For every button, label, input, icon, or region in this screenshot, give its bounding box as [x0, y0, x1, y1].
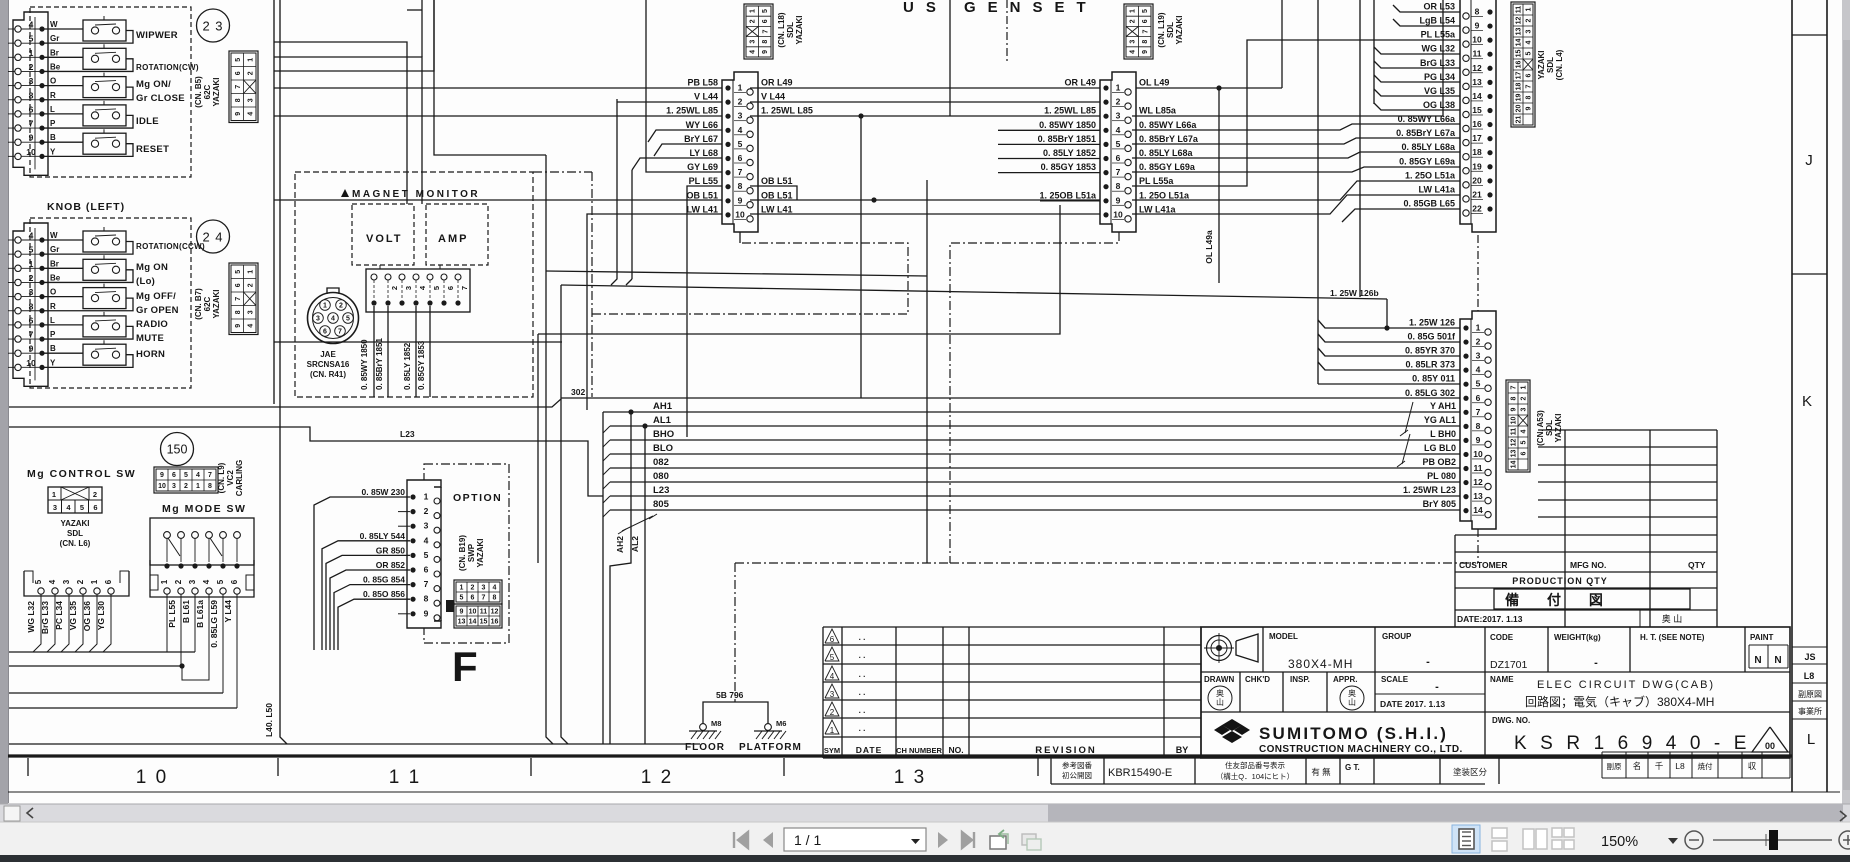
svg-text:OPTION: OPTION — [453, 492, 502, 504]
svg-text:3: 3 — [1526, 29, 1533, 33]
svg-text:8: 8 — [424, 594, 429, 604]
svg-text:2: 2 — [184, 483, 188, 490]
svg-text:(CN. L19): (CN. L19) — [1157, 12, 1166, 47]
svg-text:1: 1 — [29, 48, 34, 58]
svg-text:5: 5 — [432, 286, 441, 290]
ground FLOOR M8 — [700, 724, 707, 731]
svg-text:18: 18 — [1516, 83, 1523, 91]
svg-text:9: 9 — [1475, 21, 1480, 31]
svg-text:W: W — [50, 20, 58, 29]
svg-text:WG L32: WG L32 — [1421, 44, 1455, 54]
svg-text:8: 8 — [1142, 40, 1149, 44]
svg-text:OL L49a: OL L49a — [1204, 230, 1214, 264]
svg-text:Y L44: Y L44 — [223, 600, 233, 623]
svg-text:4: 4 — [29, 20, 34, 30]
svg-text:Br: Br — [50, 259, 59, 268]
wires WG L32 group fed from top vertical — [1373, 0, 1375, 104]
right vertical scrollbar thumb — [1843, 40, 1850, 790]
svg-text:4: 4 — [247, 324, 254, 328]
svg-text:MODEL: MODEL — [1269, 632, 1298, 641]
wire A53 pin2 — [1318, 334, 1460, 342]
svg-text:5: 5 — [34, 579, 43, 584]
wire PL L55 — [687, 186, 722, 437]
svg-text:0. 85G 501f: 0. 85G 501f — [1407, 332, 1456, 342]
svg-text:2: 2 — [93, 490, 97, 499]
svg-text:1: 1 — [247, 270, 254, 274]
nav last icon — [962, 832, 974, 848]
option short stubs pins 2,3,9 — [398, 511, 410, 513]
svg-text:. .: . . — [859, 670, 866, 679]
svg-text:R: R — [50, 91, 56, 100]
svg-text:0. 85G 854: 0. 85G 854 — [363, 575, 405, 585]
svg-text:5: 5 — [1476, 379, 1481, 389]
svg-text:VG L35: VG L35 — [1424, 86, 1455, 96]
svg-text:6: 6 — [830, 635, 835, 644]
svg-text:奥: 奥 — [1348, 688, 1356, 698]
svg-text:9: 9 — [160, 472, 164, 479]
svg-text:22: 22 — [1472, 203, 1482, 213]
CN B19 pin 3 — [410, 524, 415, 529]
svg-text:JAE: JAE — [320, 350, 336, 359]
svg-text:7: 7 — [460, 286, 469, 290]
CN R41 pin 4 — [413, 274, 419, 280]
svg-text:0. 85WY 1850: 0. 85WY 1850 — [1039, 120, 1096, 130]
svg-text:8: 8 — [235, 98, 242, 102]
svg-text:Mg ON/: Mg ON/ — [136, 79, 171, 90]
ground PLATFORM M6 — [765, 724, 772, 731]
svg-text:1: 1 — [1521, 385, 1528, 389]
svg-text:H. T. (SEE NOTE): H. T. (SEE NOTE) — [1640, 633, 1705, 642]
svg-text:4: 4 — [29, 231, 34, 241]
svg-text:11: 11 — [1511, 428, 1518, 436]
svg-text:20: 20 — [1516, 105, 1523, 113]
layout button 2 — [1492, 828, 1507, 838]
wire 080 — [610, 481, 1460, 483]
code/weight/ht/paint — [1547, 627, 1549, 672]
svg-text:. .: . . — [859, 651, 866, 660]
pin 1 — [15, 265, 21, 271]
svg-text:1 3: 1 3 — [894, 767, 926, 788]
svg-text:6: 6 — [424, 565, 429, 575]
pin 7 — [15, 336, 21, 342]
svg-text:13: 13 — [1516, 28, 1523, 36]
OPTION dashed box — [424, 464, 509, 643]
wire V L44 branch — [611, 99, 617, 285]
svg-text:CARLING: CARLING — [235, 460, 244, 496]
svg-text:1: 1 — [196, 483, 200, 490]
dash link CN L4 to CN A53 — [1477, 235, 1479, 311]
svg-text:3: 3 — [404, 286, 413, 290]
wire AL1 — [610, 425, 1460, 427]
wire drop x69 — [61, 594, 69, 652]
svg-text:AH1: AH1 — [653, 401, 673, 412]
bottom strip boxes — [1050, 758, 1052, 784]
svg-text:J: J — [1805, 152, 1813, 169]
mode pin 6 — [234, 563, 239, 568]
connector knob CN B7 body — [13, 223, 48, 386]
svg-text:9: 9 — [1142, 50, 1149, 54]
svg-text:8: 8 — [493, 595, 497, 602]
wire 0.85LY 1852 — [415, 306, 417, 397]
svg-text:1. 25WR L23: 1. 25WR L23 — [1403, 485, 1456, 495]
svg-text:CH NUMBER: CH NUMBER — [896, 746, 942, 755]
wire AH1 — [603, 411, 1460, 413]
svg-text:YAZAKI: YAZAKI — [212, 77, 221, 106]
svg-text:4: 4 — [493, 585, 497, 592]
svg-text:0. 85LY 1852: 0. 85LY 1852 — [403, 342, 412, 390]
svg-text:2 3: 2 3 — [202, 19, 223, 34]
svg-text:9: 9 — [460, 609, 464, 616]
svg-text:YAZAKI: YAZAKI — [1175, 15, 1184, 44]
connector CN B5 pin grid — [229, 51, 258, 123]
svg-text:山: 山 — [1348, 697, 1356, 707]
layout button 4 — [1552, 828, 1562, 837]
pin 5 — [15, 40, 21, 46]
svg-text:WL L85a: WL L85a — [1139, 106, 1177, 116]
svg-text:14: 14 — [1473, 505, 1483, 515]
page left edge line — [8, 0, 10, 803]
svg-text:L23: L23 — [400, 429, 415, 439]
balloon 23 — [197, 9, 230, 42]
svg-text:16: 16 — [491, 619, 499, 626]
svg-text:YAZAKI: YAZAKI — [476, 538, 485, 567]
svg-text:6: 6 — [235, 283, 242, 287]
svg-text:KBR15490-E: KBR15490-E — [1108, 767, 1172, 779]
svg-text:10: 10 — [735, 209, 745, 219]
wire option pin 1 — [314, 497, 410, 650]
svg-text:7: 7 — [235, 85, 242, 89]
svg-text:-: - — [1594, 657, 1598, 669]
svg-text:12: 12 — [1473, 477, 1483, 487]
svg-text:1: 1 — [738, 83, 743, 93]
svg-text:CUSTOMER: CUSTOMER — [1459, 560, 1508, 570]
svg-text:B L61: B L61 — [181, 600, 191, 623]
svg-text:O: O — [50, 288, 56, 297]
svg-text:PG L34: PG L34 — [1424, 72, 1455, 82]
svg-text:B: B — [50, 133, 56, 142]
svg-text:13: 13 — [1511, 450, 1518, 458]
JAE SRCNSA16 circular connector — [308, 293, 359, 344]
toolbar — [0, 822, 1850, 855]
svg-text:DATE:2017. 1.13: DATE:2017. 1.13 — [1457, 614, 1523, 624]
window icon 2 — [1022, 834, 1036, 845]
svg-text:千: 千 — [1655, 761, 1664, 771]
wire option pin 7 — [334, 585, 410, 650]
svg-text:62C: 62C — [203, 84, 212, 99]
svg-text:O: O — [50, 77, 56, 86]
svg-text:4: 4 — [1526, 40, 1533, 44]
svg-text:HORN: HORN — [136, 349, 165, 360]
wire 302 — [9, 285, 561, 407]
wire 1.25O L51a — [1132, 181, 1460, 200]
svg-text:NAME: NAME — [1490, 675, 1514, 684]
svg-text:9: 9 — [235, 112, 242, 116]
svg-text:6: 6 — [1521, 451, 1528, 455]
svg-text:5: 5 — [1526, 51, 1533, 55]
svg-text:L8: L8 — [1804, 671, 1815, 681]
svg-text:JS: JS — [1804, 652, 1815, 662]
svg-text:-: - — [1426, 656, 1430, 668]
svg-text:1: 1 — [160, 579, 169, 584]
wire OL L49a — [1218, 88, 1220, 283]
svg-text:1: 1 — [1130, 9, 1137, 13]
svg-text:5: 5 — [762, 9, 769, 13]
revision triangle 4 — [825, 666, 839, 680]
svg-text:YG AL1: YG AL1 — [1424, 415, 1456, 425]
vertical x546 — [434, 0, 546, 155]
svg-text:SYM: SYM — [824, 746, 840, 755]
connector knob CN B5 body — [13, 12, 48, 175]
CN R41 pin 6 — [441, 274, 447, 280]
svg-text:4: 4 — [196, 472, 200, 479]
wire 082 — [610, 467, 1460, 469]
wire option pin 6 — [330, 570, 410, 650]
switch HORN — [42, 352, 83, 354]
CN B19 pin 7 — [410, 582, 415, 587]
svg-text:2: 2 — [1116, 97, 1121, 107]
wire drop x97 — [89, 594, 97, 652]
mode pin 2 — [178, 563, 183, 568]
KNOB (LEFT) dashed enclosure — [30, 218, 191, 388]
svg-text:1: 1 — [323, 303, 327, 310]
svg-text:OR L49: OR L49 — [1064, 78, 1096, 88]
svg-text:SDL: SDL — [786, 22, 795, 38]
wire L23 — [610, 495, 1460, 497]
svg-text:17: 17 — [1516, 72, 1523, 80]
svg-text:1: 1 — [424, 492, 429, 502]
svg-text:(CN. L9): (CN. L9) — [217, 462, 226, 493]
approval triangle — [1752, 727, 1788, 752]
svg-text:3: 3 — [247, 310, 254, 314]
svg-text:4: 4 — [750, 50, 757, 54]
svg-text:LW L41: LW L41 — [761, 204, 793, 214]
svg-text:YAZAKI: YAZAKI — [1554, 413, 1563, 442]
svg-text:10: 10 — [1511, 417, 1518, 425]
mode pin 3 — [192, 563, 197, 568]
svg-text:住友部品番号表示: 住友部品番号表示 — [1225, 760, 1285, 770]
svg-text:K: K — [1802, 393, 1812, 410]
svg-text:OR L53: OR L53 — [1423, 2, 1455, 12]
svg-text:奥: 奥 — [1216, 688, 1224, 698]
svg-text:副原図: 副原図 — [1798, 690, 1822, 699]
wire OB L51 right — [750, 186, 797, 200]
svg-text:1: 1 — [29, 259, 34, 269]
svg-text:6: 6 — [323, 329, 327, 336]
svg-text:L BH0: L BH0 — [1430, 429, 1456, 439]
svg-text:2: 2 — [830, 708, 835, 717]
wire A53 pin3 — [1318, 348, 1460, 356]
svg-text:CHK'D: CHK'D — [1245, 675, 1270, 684]
svg-text:8: 8 — [29, 301, 34, 311]
svg-text:6: 6 — [1476, 393, 1481, 403]
bus wire y708 — [9, 707, 237, 709]
CN B19 pin 2 — [410, 509, 415, 514]
svg-text:7: 7 — [1476, 407, 1481, 417]
svg-text:8: 8 — [208, 483, 212, 490]
feed vertical for CN A53 pins — [1317, 0, 1319, 384]
svg-text:CONSTRUCTION MACHINERY CO., LT: CONSTRUCTION MACHINERY CO., LTD. — [1259, 744, 1463, 755]
svg-text:(CN. B5): (CN. B5) — [194, 76, 203, 108]
bus wire y693 — [9, 692, 223, 694]
svg-text:6: 6 — [104, 579, 113, 584]
svg-text:0. 85BrY L67a: 0. 85BrY L67a — [1396, 128, 1456, 138]
svg-text:3: 3 — [1476, 351, 1481, 361]
svg-text:L: L — [1807, 731, 1815, 748]
svg-text:2: 2 — [29, 273, 34, 283]
svg-text:6: 6 — [1526, 73, 1533, 77]
svg-text:7: 7 — [235, 297, 242, 301]
svg-text:3: 3 — [1116, 111, 1121, 121]
wire branch x861 — [860, 116, 862, 398]
revision triangle 3 — [825, 684, 839, 698]
svg-text:DWG. NO.: DWG. NO. — [1492, 716, 1530, 725]
svg-text:BrG L33: BrG L33 — [1420, 58, 1455, 68]
wire drop x41 — [33, 594, 41, 652]
svg-text:YAZAKI: YAZAKI — [60, 519, 89, 528]
mode sw pole 5 — [220, 532, 227, 539]
MAGNET MONITOR dashed box — [295, 172, 533, 397]
svg-text:0. 85LY 544: 0. 85LY 544 — [360, 531, 406, 541]
svg-text:ELEC CIRCUIT DWG(CAB): ELEC CIRCUIT DWG(CAB) — [1537, 679, 1715, 691]
svg-text:1: 1 — [1116, 83, 1121, 93]
svg-text:SWP: SWP — [467, 543, 476, 562]
svg-text:6: 6 — [29, 315, 34, 325]
svg-text:1 2: 1 2 — [641, 767, 673, 788]
svg-text:6: 6 — [29, 104, 34, 114]
svg-text:NO.: NO. — [948, 745, 963, 755]
svg-text:SCALE: SCALE — [1381, 675, 1409, 684]
svg-text:12: 12 — [1511, 439, 1518, 447]
svg-text:OB L51: OB L51 — [686, 190, 718, 200]
switch ROTATION(CW) — [42, 56, 83, 58]
svg-text:7: 7 — [424, 579, 429, 589]
svg-text:YAZAKI: YAZAKI — [1537, 50, 1546, 79]
svg-text:(CN. L4): (CN. L4) — [1555, 49, 1564, 80]
svg-text:BHO: BHO — [653, 429, 674, 440]
svg-text:WY L66: WY L66 — [686, 120, 718, 130]
svg-text:3: 3 — [316, 316, 320, 323]
wire LW L41a — [1132, 195, 1460, 214]
svg-text:CODE: CODE — [1490, 633, 1514, 642]
switch MgOFF — [42, 296, 83, 298]
wires 0.85WY L66a group to CN L4 — [1132, 124, 1460, 130]
wire A53 pin4 — [1318, 362, 1460, 370]
svg-text:RESET: RESET — [136, 144, 169, 155]
CN R41 pin 7 — [455, 274, 461, 280]
CN L18 pin grid — [744, 4, 773, 59]
svg-text:1 / 1: 1 / 1 — [794, 832, 821, 848]
svg-text:LW L41: LW L41 — [686, 204, 718, 214]
wire PL L55a up — [1132, 40, 1460, 186]
svg-text:16: 16 — [1472, 119, 1482, 129]
svg-text:0. 85GB L65: 0. 85GB L65 — [1403, 198, 1455, 208]
svg-text:PL L55: PL L55 — [167, 600, 177, 628]
wire A53 pin5 0.85Y 011 — [1318, 383, 1460, 385]
wire LW L41 right — [750, 213, 1100, 215]
svg-text:GROUP: GROUP — [1382, 632, 1412, 641]
svg-text:Br: Br — [50, 48, 59, 57]
svg-text:3: 3 — [424, 521, 429, 531]
svg-text:INSP.: INSP. — [1290, 675, 1310, 684]
svg-text:BrY L67: BrY L67 — [684, 134, 718, 144]
svg-text:2: 2 — [76, 579, 85, 584]
svg-text:US GENSET: US GENSET — [903, 0, 1098, 16]
label MAGNET MONITOR — [341, 189, 349, 197]
svg-text:14: 14 — [1511, 461, 1518, 469]
svg-text:ROTATION(CW): ROTATION(CW) — [136, 63, 199, 72]
balloon 150 — [161, 433, 194, 466]
svg-text:2 4: 2 4 — [202, 230, 223, 245]
zoom plus — [1839, 831, 1850, 849]
mode sw pole 2 — [178, 532, 185, 539]
svg-text:0. 85BrY 1851: 0. 85BrY 1851 — [375, 338, 384, 390]
svg-text:OB L51: OB L51 — [761, 176, 793, 186]
svg-text:2: 2 — [471, 585, 475, 592]
svg-text:LG BL0: LG BL0 — [1424, 443, 1456, 453]
svg-text:. .: . . — [859, 724, 866, 733]
KNOB (RIGHT) dashed enclosure — [30, 7, 191, 177]
svg-text:PL L55: PL L55 — [689, 176, 718, 186]
junction AH2 — [628, 409, 633, 414]
svg-text:SUMITOMO (S.H.I.): SUMITOMO (S.H.I.) — [1259, 724, 1448, 743]
svg-text:4: 4 — [331, 316, 335, 323]
mode sw pole 3 — [192, 532, 199, 539]
svg-text:2: 2 — [174, 579, 183, 584]
svg-text:(CN. L6): (CN. L6) — [60, 539, 91, 548]
zoom minus — [1685, 831, 1703, 849]
svg-text:10: 10 — [1473, 449, 1483, 459]
connector CN L4 — [1460, 0, 1496, 232]
svg-text:BrY 805: BrY 805 — [1423, 499, 1456, 509]
svg-text:2: 2 — [1476, 337, 1481, 347]
svg-text:5: 5 — [830, 653, 835, 662]
pin 4 — [15, 237, 21, 243]
bus wire y652 — [9, 651, 195, 653]
pin 8 — [15, 97, 21, 103]
pin 3 — [15, 293, 21, 299]
svg-text:PL L55a: PL L55a — [1139, 176, 1174, 186]
svg-text:1: 1 — [830, 726, 835, 735]
svg-text:(CN. B19): (CN. B19) — [458, 535, 467, 571]
svg-text:0. 85W 230: 0. 85W 230 — [362, 487, 406, 497]
svg-text:DZ1701: DZ1701 — [1490, 659, 1528, 671]
svg-text:. .: . . — [859, 688, 866, 697]
mode sw pole 6 — [234, 532, 241, 539]
svg-text:(CN. L18): (CN. L18) — [777, 12, 786, 47]
svg-text:0. 85O 856: 0. 85O 856 — [363, 589, 405, 599]
svg-text:B L61a: B L61a — [195, 600, 205, 628]
junction AL2 — [642, 423, 647, 428]
switch MgON — [42, 267, 83, 269]
svg-text:B: B — [50, 344, 56, 353]
svg-text:3: 3 — [29, 287, 34, 297]
mode pin 1 — [164, 563, 169, 568]
pin 6 — [15, 111, 21, 117]
svg-text:4: 4 — [1521, 429, 1528, 433]
pin 10 — [15, 364, 21, 370]
svg-text:Gr OPEN: Gr OPEN — [136, 305, 179, 316]
svg-text:3: 3 — [750, 40, 757, 44]
svg-text:8: 8 — [762, 40, 769, 44]
switch RADIO — [42, 324, 83, 326]
switch WIPWER — [42, 28, 83, 30]
svg-text:7: 7 — [762, 29, 769, 33]
CN B19 pin 5 — [410, 553, 415, 558]
svg-text:2: 2 — [247, 283, 254, 287]
revision triangle 5 — [825, 647, 839, 661]
break symbol AH2/AL2 — [622, 516, 653, 531]
right vertical scrollbar track — [1842, 0, 1850, 804]
